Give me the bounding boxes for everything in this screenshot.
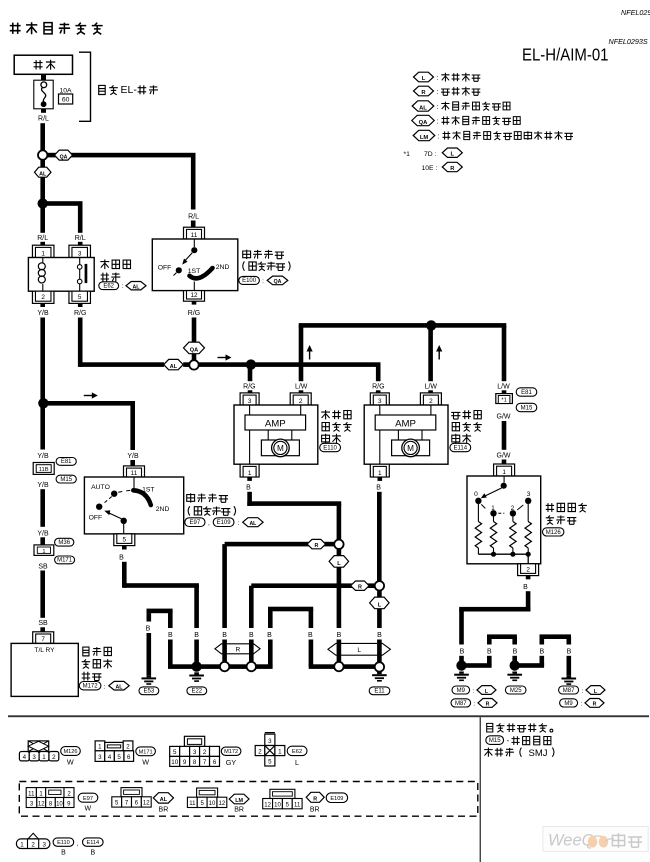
wire right motor B down xyxy=(377,492,382,582)
direction arrow up right xyxy=(439,351,440,360)
svg-text::: : xyxy=(237,520,239,527)
svg-text:B: B xyxy=(61,850,66,857)
switch E100 ref xyxy=(239,276,260,284)
switch E97 label 组合开关 xyxy=(187,493,195,502)
svg-text:R/G: R/G xyxy=(243,383,255,390)
mid bus R/G horizontal xyxy=(80,362,164,367)
svg-text:L: L xyxy=(337,561,341,567)
node connector circle top xyxy=(38,150,47,159)
svg-text::: : xyxy=(122,283,124,290)
svg-text:SB: SB xyxy=(38,620,48,627)
svg-text:B: B xyxy=(523,584,528,591)
wire right motor R/G down xyxy=(376,365,381,382)
legend tag L xyxy=(414,72,434,82)
svg-text:E110: E110 xyxy=(323,445,337,451)
switch E97 refs xyxy=(185,518,205,527)
svg-text:L/W: L/W xyxy=(295,383,308,390)
connector detail M172 xyxy=(184,736,204,746)
svg-text:M9: M9 xyxy=(564,701,573,707)
connector detail LM 11-5-10-12 xyxy=(197,788,218,797)
svg-text:AUTO: AUTO xyxy=(91,484,110,491)
svg-text:M87: M87 xyxy=(563,688,575,694)
svg-text:B: B xyxy=(487,648,492,655)
svg-text:2: 2 xyxy=(258,748,262,755)
svg-text:3: 3 xyxy=(98,754,102,761)
tag AL below node xyxy=(40,160,45,168)
svg-text:L/W: L/W xyxy=(425,383,438,390)
svg-text:BR: BR xyxy=(159,807,169,814)
svg-text:QA: QA xyxy=(419,120,429,126)
svg-text:M36: M36 xyxy=(58,540,70,546)
title 不带自动对光 xyxy=(10,23,21,34)
tag L below circle upper xyxy=(337,549,342,556)
svg-text:SB: SB xyxy=(38,563,48,570)
svg-text:E22: E22 xyxy=(191,689,202,695)
svg-text:3: 3 xyxy=(248,398,252,405)
svg-text:R/G: R/G xyxy=(74,310,86,317)
separator line xyxy=(8,715,649,717)
svg-text:60: 60 xyxy=(62,97,70,104)
svg-text:2ND: 2ND xyxy=(156,506,170,513)
svg-text:B: B xyxy=(249,632,254,639)
ground symbol M9 M87 left xyxy=(459,672,464,674)
svg-text:10E :: 10E : xyxy=(422,165,438,172)
relay coil xyxy=(42,258,44,263)
tag QA at battery node xyxy=(55,150,73,160)
svg-text:0: 0 xyxy=(474,491,478,498)
svg-text:M171: M171 xyxy=(57,558,73,564)
svg-text:12: 12 xyxy=(38,801,45,807)
control unit label 自动灯光控制单元 xyxy=(83,647,89,656)
svg-text:M15: M15 xyxy=(60,477,72,483)
svg-text::: : xyxy=(437,119,439,126)
tag QA on R/G wire xyxy=(184,342,205,354)
svg-text:L: L xyxy=(422,76,426,82)
relay E62 body 尾灯继电器 xyxy=(28,258,94,292)
watermark WeeQoo xyxy=(543,827,648,852)
svg-text:1: 1 xyxy=(98,743,102,750)
svg-text:B: B xyxy=(376,485,381,492)
svg-text:M172: M172 xyxy=(224,749,238,755)
svg-text:L/W: L/W xyxy=(497,383,510,390)
AMP block E114 xyxy=(375,415,436,430)
relay label 尾灯继电器 xyxy=(100,260,109,270)
svg-text:11: 11 xyxy=(191,232,198,239)
relay contact xyxy=(79,258,81,292)
wire Y/B to SMJ 11B xyxy=(40,403,45,449)
svg-text:3: 3 xyxy=(32,754,36,761)
connector circle upper R/L xyxy=(334,540,343,549)
svg-text:,: , xyxy=(208,520,210,527)
junction dot ground M25 xyxy=(510,660,520,670)
svg-text:2: 2 xyxy=(52,754,56,761)
motor M circle E110 xyxy=(261,440,299,456)
connector detail AL 5-7-6-12 xyxy=(121,788,142,797)
switch E100 internal lever xyxy=(193,239,195,247)
svg-text:OFF: OFF xyxy=(158,265,172,272)
svg-text:OFF: OFF xyxy=(89,515,103,522)
svg-text:12: 12 xyxy=(143,801,150,807)
svg-text:E97: E97 xyxy=(190,520,201,526)
wire right L/W down to SMJ *1 xyxy=(502,325,507,381)
svg-text:6: 6 xyxy=(127,754,131,761)
svg-text:1: 1 xyxy=(248,470,252,477)
headlamp aiming motor E110 pin 1 xyxy=(240,464,259,477)
battery 电瓶 xyxy=(14,55,72,74)
svg-text:M126: M126 xyxy=(64,749,78,755)
svg-text::: : xyxy=(581,688,583,695)
svg-text:2: 2 xyxy=(526,566,530,573)
wire switch pin12 R/G down xyxy=(192,301,197,304)
svg-text::: : xyxy=(437,89,439,96)
svg-text:1: 1 xyxy=(20,841,24,848)
svg-text:5: 5 xyxy=(123,536,127,543)
svg-text::: : xyxy=(438,134,440,141)
svg-text:4: 4 xyxy=(23,754,27,761)
svg-text:B: B xyxy=(460,648,465,655)
svg-text:2: 2 xyxy=(41,294,45,301)
ground symbol E22 xyxy=(194,672,199,674)
svg-text:*1: *1 xyxy=(404,151,411,158)
aiming switch label 前大灯对光开关 xyxy=(546,503,554,512)
direction arrow right on mid bus xyxy=(218,357,227,358)
svg-text:7: 7 xyxy=(41,636,45,643)
svg-text:W: W xyxy=(84,805,91,812)
headlamp aiming motor E114 pin 1 xyxy=(370,464,389,477)
svg-text:B: B xyxy=(337,632,342,639)
svg-text:AL: AL xyxy=(39,171,47,177)
svg-text:9: 9 xyxy=(183,759,187,766)
svg-text:B: B xyxy=(267,632,272,639)
node connector circle mid bus xyxy=(189,360,198,369)
svg-text:BR: BR xyxy=(234,807,244,814)
branch wire to switch E97 pin 11 xyxy=(43,401,135,406)
connector detail E110 E114 xyxy=(28,833,38,839)
junction dot ground M9/M87 xyxy=(456,660,466,670)
wire fuse down R/L xyxy=(41,109,46,113)
ground symbol M25 xyxy=(512,672,517,674)
svg-text:L: L xyxy=(451,152,455,158)
svg-text:B: B xyxy=(119,555,124,562)
svg-text:1: 1 xyxy=(278,748,282,755)
reference bracket 参见 EL-电源 xyxy=(79,52,91,121)
junction dot battery branch xyxy=(38,198,48,208)
relay E62 pin 5 xyxy=(69,291,91,303)
svg-text:AL: AL xyxy=(160,797,168,803)
svg-text:QA: QA xyxy=(60,154,68,160)
svg-text:Y/B: Y/B xyxy=(37,530,49,537)
svg-text:M: M xyxy=(277,444,284,453)
wire relay pin2 Y/B down xyxy=(40,303,45,307)
wire branch to relay pin 3 xyxy=(43,201,83,206)
svg-text:4: 4 xyxy=(108,754,112,761)
svg-text:3: 3 xyxy=(78,250,82,257)
aiming switch selector xyxy=(503,476,505,483)
svg-text:R/L: R/L xyxy=(188,213,199,220)
svg-text:*1: *1 xyxy=(501,398,506,404)
ground symbol M87 M9 right xyxy=(567,675,572,677)
bridge loop right 1 xyxy=(487,637,492,645)
combination switch E100 pin 11 xyxy=(184,227,205,239)
svg-text:5: 5 xyxy=(268,759,272,766)
svg-text:M15: M15 xyxy=(489,738,501,744)
SMJ connector *1 E81 M15 xyxy=(496,394,513,404)
svg-text:R/L: R/L xyxy=(38,116,49,123)
svg-text:B: B xyxy=(194,632,199,639)
variant arrow box L xyxy=(328,643,391,655)
aiming switch M126 pin 1 xyxy=(494,464,515,476)
svg-text:W: W xyxy=(67,757,74,766)
combination switch E100 body xyxy=(152,239,238,291)
svg-text:3: 3 xyxy=(378,398,382,405)
svg-text:,: , xyxy=(77,840,79,847)
svg-text:E110: E110 xyxy=(57,840,70,846)
direction arrow up left xyxy=(309,351,310,360)
note M15 超级多路 xyxy=(486,736,504,745)
SMJ connector 11B E81 M15 xyxy=(33,463,54,475)
ground symbol E11 xyxy=(377,672,382,674)
legend tag LM xyxy=(413,130,435,140)
svg-text:R/G: R/G xyxy=(188,310,200,317)
svg-text:EL-: EL- xyxy=(121,84,138,96)
motor M circle E114 xyxy=(392,440,430,456)
svg-text:M171: M171 xyxy=(139,749,153,755)
R branch horizontal lower xyxy=(251,583,375,588)
svg-text:R: R xyxy=(486,702,490,708)
svg-text:AMP: AMP xyxy=(265,418,286,429)
wire left motor L/W down xyxy=(299,325,304,381)
aiming switch M126 body xyxy=(467,476,541,564)
wire lower R branch down xyxy=(249,586,254,628)
aiming switch bottom rail xyxy=(478,548,528,554)
connector M36 M171 pin 1 xyxy=(34,545,54,556)
connector detail M126 xyxy=(28,741,49,752)
svg-text:B: B xyxy=(246,485,251,492)
svg-text:G/W: G/W xyxy=(497,453,511,460)
svg-text:E62: E62 xyxy=(292,749,302,755)
svg-text:E100: E100 xyxy=(242,278,257,284)
svg-text:R: R xyxy=(358,585,362,591)
svg-text:11: 11 xyxy=(131,470,138,477)
svg-text:6: 6 xyxy=(213,759,217,766)
svg-text:1: 1 xyxy=(42,549,45,555)
svg-text:12: 12 xyxy=(190,292,198,299)
svg-text:10: 10 xyxy=(171,759,178,766)
svg-text:NFEL0293S: NFEL0293S xyxy=(609,37,648,46)
junction dot left motor R/G xyxy=(246,359,256,369)
svg-text:7D :: 7D : xyxy=(424,151,437,158)
wire B below motor E114 xyxy=(378,477,383,481)
connector detail R E109 12-10-5-11 xyxy=(270,789,295,798)
motor E114 name label xyxy=(451,412,460,419)
svg-text:E114: E114 xyxy=(454,445,468,451)
svg-text:10: 10 xyxy=(209,801,216,807)
aiming switch resistors xyxy=(478,504,528,522)
ground lead E53 xyxy=(147,613,152,621)
svg-text:M126: M126 xyxy=(546,530,562,536)
svg-text:10A: 10A xyxy=(59,87,72,94)
connector detail E97 xyxy=(26,788,36,798)
svg-text:10: 10 xyxy=(274,802,281,808)
connector circle bus 3 xyxy=(334,662,343,671)
svg-text:8: 8 xyxy=(193,759,197,766)
svg-text:B: B xyxy=(146,626,151,633)
svg-text:E53: E53 xyxy=(144,689,155,695)
svg-text:2: 2 xyxy=(429,398,433,405)
svg-text::: : xyxy=(437,104,439,111)
wire B below motor E110 xyxy=(247,477,252,481)
relay E62 pin 2 xyxy=(32,291,54,303)
connector detail E62 xyxy=(265,732,275,734)
wire left motor B to junction xyxy=(247,492,252,506)
svg-text:11B: 11B xyxy=(39,467,49,473)
svg-text:5: 5 xyxy=(173,749,177,756)
svg-text:3: 3 xyxy=(193,749,197,756)
svg-text::: : xyxy=(104,684,106,691)
svg-text:R: R xyxy=(593,702,597,708)
svg-text:1: 1 xyxy=(502,469,506,476)
legend tag AL xyxy=(412,101,434,111)
ground symbol E53 xyxy=(147,675,152,677)
svg-text:5: 5 xyxy=(78,294,82,301)
right ground bus segment 2 xyxy=(515,663,544,668)
svg-text:B: B xyxy=(539,648,544,655)
wire right motor L/W down xyxy=(428,325,433,381)
svg-text:2: 2 xyxy=(31,841,35,848)
svg-text:Y/B: Y/B xyxy=(37,310,49,317)
svg-text:Y/B: Y/B xyxy=(127,453,139,460)
svg-text:AMP: AMP xyxy=(395,418,416,429)
svg-text:B: B xyxy=(513,648,518,655)
svg-text:11: 11 xyxy=(28,791,35,797)
svg-text:E109: E109 xyxy=(330,796,343,802)
svg-text:M9: M9 xyxy=(457,688,466,694)
svg-text:AL: AL xyxy=(419,105,427,111)
svg-text:5: 5 xyxy=(117,754,121,761)
combination switch E97 pin 5 xyxy=(114,534,135,546)
svg-text:G/W: G/W xyxy=(497,414,511,421)
svg-text:B: B xyxy=(308,632,313,639)
combination switch E100 pin 12 xyxy=(184,291,205,302)
tag AL on mid bus xyxy=(164,359,184,369)
svg-text:E81: E81 xyxy=(61,459,72,465)
svg-text:BR: BR xyxy=(310,807,320,814)
aiming switch M126 pin 2 xyxy=(518,564,539,576)
svg-text:R/L: R/L xyxy=(37,235,48,242)
wire top bus to switch pin 11 xyxy=(47,153,196,158)
connector circle bus 2 xyxy=(247,662,256,671)
separator vertical xyxy=(480,717,481,862)
svg-text:R/G: R/G xyxy=(372,383,384,390)
bus bridge loop xyxy=(268,609,273,667)
svg-text:GY: GY xyxy=(226,758,237,767)
svg-text:R: R xyxy=(314,543,318,549)
svg-text:3: 3 xyxy=(527,491,531,498)
tag L below circle lower xyxy=(377,590,382,597)
svg-text:2: 2 xyxy=(126,743,130,750)
relay E62 pin 3 xyxy=(69,245,91,257)
svg-text:LM: LM xyxy=(235,798,243,804)
svg-text:M172: M172 xyxy=(83,684,99,690)
svg-text:B: B xyxy=(377,632,382,639)
svg-text:W: W xyxy=(142,757,149,766)
svg-text:3: 3 xyxy=(268,738,272,745)
svg-text:B: B xyxy=(567,648,572,655)
relay ref E62 xyxy=(99,282,119,290)
svg-text:L: L xyxy=(357,647,361,654)
svg-text:2ND: 2ND xyxy=(216,264,230,271)
svg-text:M: M xyxy=(407,444,414,453)
top bus L/W horizontal xyxy=(299,323,507,328)
tag R lower xyxy=(351,581,370,590)
svg-text:R/L: R/L xyxy=(75,235,86,242)
svg-text::: : xyxy=(437,75,439,82)
R branch horizontal upper xyxy=(225,542,335,547)
note 连接器 SMJ xyxy=(484,748,493,757)
svg-text:1: 1 xyxy=(41,250,45,257)
svg-text:Y/B: Y/B xyxy=(37,453,49,460)
svg-text:SMJ: SMJ xyxy=(529,748,548,759)
legend tag QA xyxy=(412,115,434,125)
svg-text:QA: QA xyxy=(190,348,198,354)
svg-text:1: 1 xyxy=(378,470,382,477)
junction dot Y/B branch xyxy=(38,398,48,408)
svg-text:M15: M15 xyxy=(521,405,533,411)
connector circle lower R/L xyxy=(375,581,384,590)
svg-text:7: 7 xyxy=(203,759,207,766)
svg-text:E11: E11 xyxy=(374,689,385,695)
svg-text:R: R xyxy=(236,647,241,654)
motor E110 name label xyxy=(321,410,330,419)
svg-text:AL: AL xyxy=(116,684,124,690)
svg-text:B: B xyxy=(168,632,173,639)
svg-text::: : xyxy=(580,701,582,708)
svg-text:T/L RY: T/L RY xyxy=(34,647,55,654)
svg-text:E97: E97 xyxy=(83,796,93,802)
svg-text:M25: M25 xyxy=(510,688,522,694)
relay E62 pin 1 xyxy=(32,245,54,257)
svg-text:B: B xyxy=(90,850,95,857)
wire aiming switch pin2 B xyxy=(526,576,531,580)
svg-text:EL-H/AIM-01: EL-H/AIM-01 xyxy=(522,45,609,65)
wire to relay pin 1 xyxy=(40,204,45,233)
svg-text:2: 2 xyxy=(299,398,303,405)
svg-text:AL: AL xyxy=(133,284,141,290)
svg-text:E62: E62 xyxy=(103,283,114,289)
svg-text:QA: QA xyxy=(274,279,282,285)
svg-text:LM: LM xyxy=(420,135,429,141)
headlamp aiming motor E114 body xyxy=(364,405,448,464)
tag R upper xyxy=(307,539,326,548)
bridge loop right 2 xyxy=(540,637,545,645)
combination switch E97 pin 11 xyxy=(124,466,145,477)
legend tag R xyxy=(414,86,434,96)
svg-text:L: L xyxy=(295,758,299,767)
svg-text:-: - xyxy=(507,736,510,745)
fuse 10A 60 xyxy=(34,80,53,109)
svg-text:AL: AL xyxy=(249,521,257,527)
junction dot ground E22 xyxy=(191,661,201,671)
headlamp aiming motor E114 pin 3 xyxy=(370,393,389,405)
headlamp aiming motor E114 pin 2 xyxy=(420,393,441,405)
svg-text:12: 12 xyxy=(219,801,226,807)
svg-text:3: 3 xyxy=(42,841,46,848)
auto light control unit pin 7 xyxy=(33,632,54,644)
wire left motor R/G down xyxy=(248,365,253,382)
relay tag AL xyxy=(126,282,146,290)
bottom bus left segment xyxy=(168,664,220,669)
variant arrow box R xyxy=(215,644,260,654)
